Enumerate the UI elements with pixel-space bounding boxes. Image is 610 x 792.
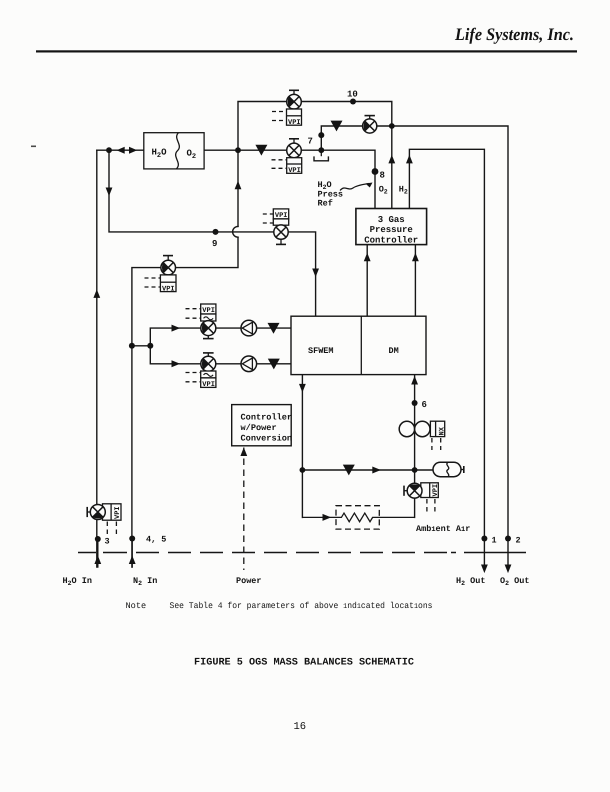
node 10 xyxy=(347,90,358,105)
wire SFWEM water drain xyxy=(301,375,303,518)
flow arrow into separator (right) xyxy=(129,147,137,154)
wire controller H2 sense from DM xyxy=(414,245,416,317)
node 7 xyxy=(308,132,325,146)
flow arrow up purge riser xyxy=(235,181,242,190)
valve V5 (N2 branch 1, VPI) xyxy=(186,304,216,339)
flow arrow branch 2 xyxy=(172,360,181,367)
pump P1 (branch 1) xyxy=(241,320,257,336)
flow arrow up O2 sense riser xyxy=(388,155,395,164)
note line xyxy=(126,601,433,611)
svg-text:See Table 4 for parameters of: See Table 4 for parameters of above 1nd1… xyxy=(170,601,433,611)
junction separator inlet xyxy=(106,147,112,153)
flow arrow down node 9 drop xyxy=(106,188,113,197)
wire O2 out drop tail xyxy=(507,539,509,566)
label H2O Press Ref xyxy=(318,180,344,209)
wire main water/O2 line y=150 xyxy=(97,150,375,208)
svg-text:FIGURE 5 OGS MASS BALANCES SC: FIGURE 5 OGS MASS BALANCES SCHEMATIC xyxy=(194,658,414,669)
svg-text:N2 In: N2 In xyxy=(133,576,157,587)
svg-text:6: 6 xyxy=(422,400,427,410)
SFWEM / DM module box xyxy=(291,316,426,374)
valve V7 (recirculation, VPI above) xyxy=(263,209,289,245)
wire N2 feed riser xyxy=(131,346,133,567)
wire controller H2 vent to H2 out xyxy=(409,149,484,538)
svg-text:Conversion: Conversion xyxy=(241,433,293,443)
flow arrow up H2 vent riser xyxy=(406,155,413,164)
phase separator H2O/O2 box xyxy=(144,133,204,169)
svg-text:8: 8 xyxy=(380,171,385,181)
wire H2O feed riser left xyxy=(96,150,98,567)
controller w/power conversion box xyxy=(232,405,292,446)
wire DM hydrogen loop node 6 xyxy=(414,375,416,484)
junction condenser line left xyxy=(300,467,306,473)
svg-text:Controller: Controller xyxy=(241,413,293,423)
svg-text:SFWEM: SFWEM xyxy=(308,346,334,356)
junction N2 split left xyxy=(129,343,135,349)
svg-text:Pressure: Pressure xyxy=(370,225,413,235)
svg-text:Power: Power xyxy=(236,576,262,586)
heater (dashed box with resistor) xyxy=(302,506,414,529)
node 6 xyxy=(412,400,427,410)
accumulator (bladder tank) xyxy=(433,462,464,476)
vent symbol at node 7 xyxy=(314,150,328,161)
pump P2 (branch 2) xyxy=(241,356,257,372)
check triangle branch 2 xyxy=(268,359,280,370)
wire branch split stub xyxy=(132,345,150,347)
wire controller O2 sense riser xyxy=(391,126,393,209)
svg-text:3: 3 xyxy=(105,537,110,547)
junction N2 split right xyxy=(147,343,153,349)
wire N2 purge loop riser x=238 (upper part, above hop) xyxy=(237,150,239,226)
margin speck xyxy=(31,146,36,148)
junction at V2 vent tee xyxy=(389,123,395,129)
wire top loop horizontal (valve V1 / node 10 line) xyxy=(238,102,392,151)
wire controller O2 sense from SFWEM xyxy=(366,245,368,317)
header rule xyxy=(36,50,577,52)
junction node7 base xyxy=(318,147,324,153)
flow arrow branch 1 xyxy=(172,325,181,332)
power dashed line xyxy=(243,448,245,571)
svg-text:w/Power: w/Power xyxy=(241,423,277,433)
svg-text:VPI: VPI xyxy=(162,286,175,294)
valve V6 (N2 branch 2, VPI) xyxy=(186,353,216,389)
interface dashed line xyxy=(78,552,526,554)
wire H2 out drop tail xyxy=(483,539,485,566)
valve V1 (top vent, VPI) xyxy=(272,90,302,127)
junction condenser line right xyxy=(412,467,418,473)
svg-text:O2 Out: O2 Out xyxy=(500,576,529,587)
svg-text:Note: Note xyxy=(126,601,147,611)
svg-text:Life Systems, Inc.: Life Systems, Inc. xyxy=(454,24,574,44)
wire O2 vent line y=126 to O2 out corner xyxy=(321,126,508,539)
svg-text:O2: O2 xyxy=(379,184,388,195)
flow arrow N2 in xyxy=(129,555,136,564)
flow arrow up controller O2 sense xyxy=(364,253,371,262)
flow arrow out of separator (left) xyxy=(117,147,125,154)
svg-text:VPI: VPI xyxy=(432,484,440,497)
valve V2 (O2 vent regulator) xyxy=(363,116,377,134)
wire branch 1 to SFWEM xyxy=(150,328,291,346)
3 gas pressure controller box xyxy=(356,209,427,246)
svg-text:1: 1 xyxy=(492,536,497,546)
flow arrow H2O in xyxy=(94,555,101,564)
svg-text:H2 Out: H2 Out xyxy=(456,576,485,587)
svg-text:2: 2 xyxy=(516,536,521,546)
flow arrow down SFWEM drain xyxy=(299,384,306,393)
wire N2 in stub xyxy=(131,539,133,568)
wire condenser cross line y=470 xyxy=(302,469,414,471)
svg-text:VPI: VPI xyxy=(114,506,122,519)
check triangle branch 1 xyxy=(268,323,280,334)
wire H2O in stub xyxy=(97,539,99,567)
wire node 9 recirculation drop xyxy=(109,150,316,316)
svg-text:H2: H2 xyxy=(399,184,408,195)
wire heater return riser xyxy=(414,498,416,517)
junction separator outlet xyxy=(235,147,241,153)
flow arrow power into controller xyxy=(240,447,247,456)
svg-text:7: 7 xyxy=(308,137,313,147)
svg-text:Amb1ent A1r: Amb1ent A1r xyxy=(416,524,470,534)
flow arrow up into DM bottom xyxy=(411,376,418,385)
check triangle on water line xyxy=(255,145,267,156)
svg-text:VPI: VPI xyxy=(288,167,301,175)
node 8 xyxy=(372,168,385,180)
node 3 xyxy=(95,536,110,547)
svg-text:DM: DM xyxy=(389,346,399,356)
flow arrow down SFWEM feed xyxy=(312,269,319,278)
svg-text:10: 10 xyxy=(347,90,358,100)
node 1 xyxy=(481,536,496,546)
svg-text:Controller: Controller xyxy=(364,236,418,246)
svg-text:NX: NX xyxy=(439,426,447,435)
svg-text:4, 5: 4, 5 xyxy=(146,535,166,545)
svg-text:VPI: VPI xyxy=(288,119,301,127)
valve V8 (H2 ambient vent, rotated VPI) xyxy=(404,483,440,513)
valve V3 (water line, VPI) xyxy=(272,139,302,175)
check triangle on O2 vent line xyxy=(331,121,343,132)
wire hop over node-9 line xyxy=(233,226,238,237)
flow arrow heater line xyxy=(323,514,332,521)
node 9 xyxy=(212,229,219,249)
condensing heat exchanger (twin circles with NX sensor) xyxy=(399,421,446,450)
flow arrow condenser line xyxy=(372,467,381,474)
wire accumulator stub xyxy=(415,469,433,471)
flow arrow O2 out xyxy=(505,565,512,574)
H2O press ref pointer arrow xyxy=(340,183,373,191)
wire N2 purge loop lower part through valve V4 xyxy=(132,237,238,346)
svg-text:16: 16 xyxy=(294,721,307,733)
svg-text:VPI: VPI xyxy=(202,381,215,389)
svg-text:Ref: Ref xyxy=(318,199,333,209)
check triangle condenser line xyxy=(343,465,355,476)
valve V9 (H2O inlet, rotated VPI) xyxy=(87,504,122,536)
wire branch 2 to SFWEM xyxy=(150,346,291,364)
svg-text:9: 9 xyxy=(212,239,217,249)
node 4,5 xyxy=(129,535,166,545)
node 2 xyxy=(505,536,521,546)
flow arrow H2 out xyxy=(481,565,488,574)
valve V4 (N2 purge, VPI) xyxy=(145,256,177,294)
svg-text:3 Gas: 3 Gas xyxy=(378,215,405,225)
flow arrow up H2O riser xyxy=(93,289,100,298)
flow arrow up controller H2 sense xyxy=(412,253,419,262)
svg-text:H2O In: H2O In xyxy=(63,576,92,587)
